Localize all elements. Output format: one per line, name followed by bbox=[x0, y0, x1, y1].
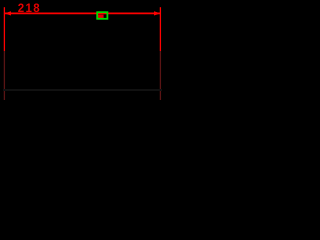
left arrowhead bbox=[5, 11, 12, 15]
left extension line upper (bright red) bbox=[3, 7, 5, 51]
dimension grip point (red square) bbox=[98, 15, 104, 19]
right arrowhead bbox=[154, 11, 161, 15]
right extension line upper (bright red) bbox=[159, 7, 161, 51]
object edge line bbox=[3, 89, 162, 91]
dimension line bbox=[5, 12, 160, 14]
left extension line lower (dark red) bbox=[3, 51, 5, 100]
right extension line lower (dark red) bbox=[159, 51, 161, 100]
selection handle (green rectangle) bbox=[97, 12, 107, 19]
